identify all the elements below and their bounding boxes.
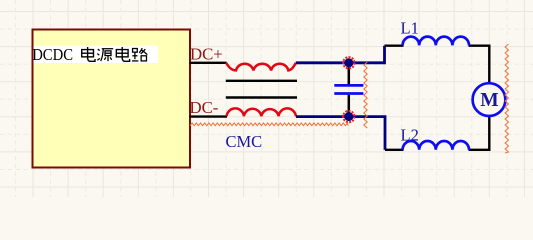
wire: DC+ stub from sheet symbol to CMC bbox=[190, 62, 227, 64]
CMC core bar upper bbox=[226, 80, 297, 82]
svg-text:CMC: CMC bbox=[226, 132, 263, 151]
inductor L2 leads bbox=[385, 116, 489, 150]
svg-text:DC-: DC- bbox=[190, 98, 219, 117]
error squiggle under DC- net bbox=[190, 123, 348, 126]
CMC winding bottom (red coil) bbox=[227, 108, 296, 116]
port DC- bbox=[190, 98, 219, 117]
CMC winding top (red coil) bbox=[226, 63, 296, 71]
svg-text:L1: L1 bbox=[401, 19, 419, 38]
sheet symbol: DCDC power supply block bbox=[33, 30, 191, 168]
label L1 bbox=[401, 19, 419, 38]
junction top (selected) bbox=[343, 57, 354, 68]
CMC core bar lower bbox=[226, 96, 297, 98]
port DC+ bbox=[190, 45, 223, 64]
wire: top rail from CMC to L1 branch bbox=[296, 46, 385, 63]
error squiggle beside motor bbox=[505, 44, 508, 153]
wire: DC- stub from sheet symbol to CMC bbox=[190, 115, 228, 117]
capacitor bottom lead bbox=[348, 95, 351, 117]
motor M1 circle bbox=[473, 83, 506, 116]
inductor L1 coil bbox=[403, 37, 469, 46]
svg-text:M: M bbox=[480, 90, 498, 111]
sheet symbol label text: DCDC电源电路 bbox=[32, 45, 147, 64]
inductor L1 leads bbox=[385, 46, 490, 83]
junction bottom (selected) bbox=[343, 111, 354, 122]
label L2 bbox=[401, 126, 419, 145]
svg-text:DC+: DC+ bbox=[190, 45, 223, 64]
capacitor C (X-cap) plates bbox=[334, 85, 363, 93]
svg-text:DCDC: DCDC bbox=[32, 45, 73, 64]
wire: bottom rail from CMC to L2 branch bbox=[296, 117, 385, 150]
error squiggle beside capacitor bbox=[364, 62, 367, 128]
capacitor top lead bbox=[348, 63, 351, 84]
inductor L2 coil bbox=[403, 141, 469, 150]
label CMC bbox=[226, 132, 263, 151]
